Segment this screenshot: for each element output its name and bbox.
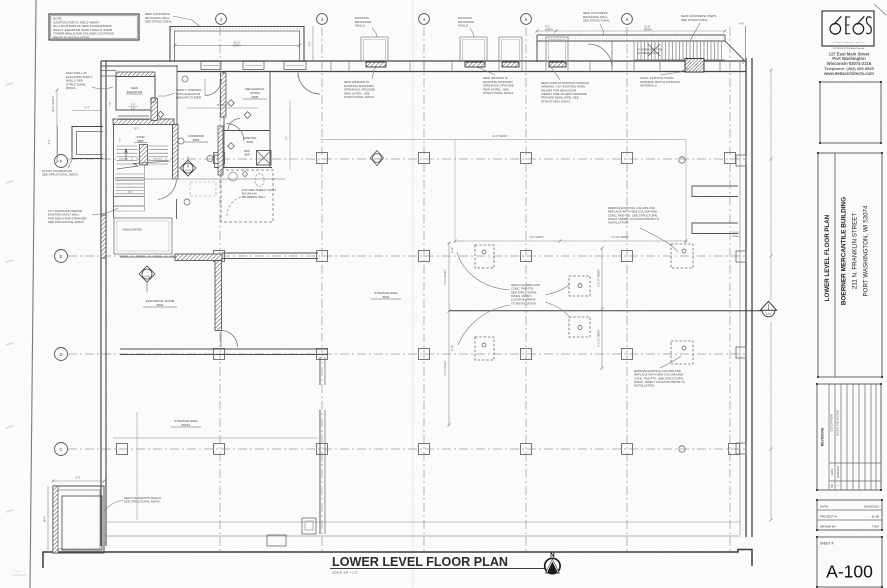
svg-text:TO INSTALLATION: TO INSTALLATION [511,301,536,305]
svg-text:SEE STRUCTURAL DWGS.: SEE STRUCTURAL DWGS. [42,173,79,177]
east wall [745,58,747,537]
svg-text:5'-4": 5'-4" [85,107,90,110]
south foundation line [43,550,752,569]
vertical dim right of footings [601,248,603,368]
keynote diamond elevator south [157,111,164,118]
svg-text:4'-0": 4'-0" [131,109,136,111]
window openings in north wall left [201,62,221,70]
left margin marks [6,83,13,85]
svg-text:E: E [60,254,63,259]
svg-text:9'-0": 9'-0" [75,476,80,480]
corridor south wall [113,178,285,180]
svg-text:www.6e6sarchitects.com: www.6e6sarchitects.com [823,71,874,76]
mech door arc [228,119,240,131]
retaining wall interior dim [175,44,300,46]
svg-text:#001: #001 [383,295,390,299]
sw stoop foundation [53,486,104,553]
svg-text:4'-0": 4'-0" [128,191,133,194]
window sills on north wall [366,62,386,67]
horizontal grid lines F E D C [68,158,748,160]
svg-text:A-300: A-300 [144,275,149,278]
stoop dims [72,110,103,112]
svg-text:ELEVATOR: ELEVATOR [127,90,143,94]
dim line top footing row [320,139,686,141]
janitor bottom wall [215,167,273,169]
stair left wall [113,125,115,219]
svg-text:4'-1": 4'-1" [545,25,550,29]
logo glyph 6 left [830,24,841,35]
south area floor line [106,521,741,523]
general note box [49,14,139,40]
svg-text:COPYRIGHT 2012: COPYRIGHT 2012 All Rights Reserved [833,47,864,50]
svg-text:02/06/2012: 02/06/2012 [837,465,840,478]
logo glyph 6 right [853,24,864,35]
svg-text:PORT WASHINGTON, WI 53074: PORT WASHINGTON, WI 53074 [863,205,870,296]
svg-text:LOWER LEVEL FLOOR PLAN: LOWER LEVEL FLOOR PLAN [332,554,508,569]
stair top hatched wall [113,119,174,125]
corridor east hatched wall [218,126,223,175]
svg-text:PLUMBING ONLY: PLUMBING ONLY [242,195,266,199]
stair center wall [140,145,148,166]
grid bubbles top [216,14,227,25]
electrical room north wall [120,256,175,258]
svg-text:7'-7": 7'-7" [287,136,289,141]
svg-text:16'-4": 16'-4" [43,516,47,523]
svg-text:SEE STRUCTURAL: SEE STRUCTURAL [583,19,610,23]
storage 001a inner line [113,437,318,439]
stair break line [117,161,170,169]
stair down arrow [125,149,128,160]
keynote circle janitor west [207,156,213,162]
vertical dim at grid between footings [448,243,450,425]
steps right return [725,35,746,62]
leaders to footings [457,252,510,290]
dimension line above retaining wall [537,30,725,32]
svg-text:STRUCTURAL DWGS.: STRUCTURAL DWGS. [483,91,514,95]
small circle on grid C [679,446,685,452]
svg-text:8'-1": 8'-1" [135,128,140,131]
toilet fixture dashed [255,174,264,187]
small diamond toilet room [242,171,247,177]
corridor north door arc [205,79,222,96]
svg-text:REVISIONS: REVISIONS [821,427,825,446]
footing anchor circles [482,250,486,254]
section marker corridor [180,160,196,176]
east wall pilasters [736,155,746,166]
grid bubbles left [55,155,68,168]
svg-text:WALLS: WALLS [458,24,468,28]
svg-text:#005: #005 [137,139,144,143]
sw stoop hatch edge [53,486,58,553]
janitor sw wall jog [215,155,222,168]
stair right hatched wall [173,125,179,180]
svg-text:(7) RISERS AT 7" EQ.: (7) RISERS AT 7" EQ. [637,48,664,52]
keynote circle corridor wall [178,138,184,144]
svg-text:SEE STRUCTURAL: SEE STRUCTURAL [681,18,708,22]
south wall inner face [106,535,740,537]
svg-text:DESCRIPTION: DESCRIPTION [831,414,834,431]
svg-text:SEE STRUCTURAL DWGS.: SEE STRUCTURAL DWGS. [48,220,85,224]
second dashed fixture box [190,182,216,196]
svg-text:SHEET #:: SHEET #: [820,542,834,546]
svg-text:31'-6" VERIFY: 31'-6" VERIFY [492,135,508,138]
new concrete retaining wall top-right [537,34,725,36]
svg-text:A-300: A-300 [185,169,190,172]
revisions box [817,384,881,490]
sheet number box [817,537,882,587]
north wall inner face right [177,71,746,73]
svg-text:#001A: #001A [182,423,191,427]
keynote circle elevator wall [151,98,156,103]
steps cross mark [648,44,660,56]
electrical room south wall double [120,348,328,350]
svg-text:2'-6": 2'-6" [131,105,136,107]
svg-text:#004: #004 [247,140,254,144]
svg-text:6'-6 1/2" VERIFY: 6'-6 1/2" VERIFY [599,269,601,287]
north wall mullion ticks [330,61,332,72]
future unisex toilet dashed room [221,170,273,222]
svg-text:(6) TREADS AT 11": (6) TREADS AT 11" [637,51,660,55]
svg-text:A-100: A-100 [826,562,873,582]
svg-text:PROJECT #:: PROJECT #: [820,514,837,518]
title underline [330,568,545,570]
svg-text:9'-6" VERIFY: 9'-6" VERIFY [530,236,544,239]
svg-text:#003: #003 [193,138,200,142]
svg-text:14'-2" VERIFY: 14'-2" VERIFY [444,360,447,376]
janitor door arc [227,124,245,142]
elevator room [116,77,155,111]
elevator door lines [118,115,149,117]
left vertical dim line [56,90,58,162]
vertical grid lines 2-7 [219,27,221,552]
beam marks on east wall [692,186,738,197]
elevator north hatched wall [116,72,155,77]
svg-text:WALLS: WALLS [355,24,365,28]
svg-text:3'-6": 3'-6" [120,138,122,143]
electrical room east wall [215,261,222,331]
sink fixture dashed [229,172,238,181]
svg-text:5'-8 1/2" VERIFY: 5'-8 1/2" VERIFY [599,329,601,347]
svg-text:DATE:: DATE: [820,504,829,508]
svg-text:7'-8": 7'-8" [110,102,112,107]
new door arc at existing window opening [588,44,612,68]
svg-text:3'-4": 3'-4" [48,139,51,144]
stair landing lines [114,196,145,198]
west wall [100,61,102,546]
section marker electrical [139,266,155,282]
logo glyph S [866,17,871,34]
svg-text:ISSUED FOR BIDDING: ISSUED FOR BIDDING [837,410,840,436]
empty stamp box [820,82,881,143]
column squares [317,153,328,164]
unexcavated area [114,218,172,254]
stair lower run treads [116,173,145,175]
svg-text:MATERIALS: MATERIALS [640,84,657,88]
svg-text:SCALE: 1/8" = 1'-0": SCALE: 1/8" = 1'-0" [332,571,358,575]
svg-text:N: N [550,552,555,559]
new footing dotted squares [475,245,494,268]
svg-text:SEE STRUCTURAL: SEE STRUCTURAL [145,20,172,24]
info box [817,500,882,530]
elevator right wall hatch [151,98,158,121]
north wall inner face left [101,65,177,67]
svg-text:VERIFY: VERIFY [545,30,554,32]
small pit boxes near south wall [267,535,286,546]
horizontal dim above footings [455,240,686,242]
svg-text:02/06/2012: 02/06/2012 [864,504,879,508]
stair upper run treads right [149,145,169,147]
svg-text:TGW: TGW [872,524,879,528]
svg-text:DWGS.: DWGS. [66,86,76,90]
svg-text:211 N. FRANKLIN STREET: 211 N. FRANKLIN STREET [852,213,859,289]
svg-text:MANUFACTURER: MANUFACTURER [176,96,202,100]
cmu infill west wall segment [101,215,106,258]
storage door arc in south wall [221,331,238,348]
wall at grid 3 lower [319,357,321,385]
svg-text:2'-8": 2'-8" [741,59,745,64]
new concrete steps treads [633,42,635,60]
new concrete retaining wall top-left [170,27,304,63]
svg-text:LOWER LEVEL FLOOR PLAN: LOWER LEVEL FLOOR PLAN [824,214,831,301]
section cut line [449,310,762,312]
keynote diamond near grid 4 [371,151,384,166]
project title box [818,153,882,377]
svg-text:SINK: SINK [244,154,250,157]
keynote circle corridor south [184,199,190,205]
svg-text:#002: #002 [157,303,164,307]
svg-text:7'-6 1/2" VERIFY: 7'-6 1/2" VERIFY [611,236,629,239]
svg-text:BOERNER MERCANTILE BUILDING: BOERNER MERCANTILE BUILDING [841,197,848,305]
svg-text:C: C [59,447,62,452]
svg-text:36'-4" VERIFY: 36'-4" VERIFY [52,96,55,112]
stair upper run treads left [117,145,138,147]
svg-text:4'-0": 4'-0" [739,22,744,26]
svg-text:STRUCTURAL DWGS.: STRUCTURAL DWGS. [541,99,571,103]
svg-text:~––: ~–– [13,568,21,573]
wall below corridor door [176,199,178,219]
svg-text:22'-6": 22'-6" [644,25,651,29]
wall row E storage 001 [222,252,318,254]
svg-text:NO.: NO. [832,483,834,487]
svg-text:A-300: A-300 [766,313,771,316]
fold crease [412,0,414,588]
elevator shelf lines [100,70,116,72]
sw stoop dims [53,480,104,482]
right side vertical dim line [770,70,772,300]
stoop at stair west [72,127,103,159]
section marker right [762,304,775,317]
top right corner mark [874,4,886,15]
infill existing door hatched box [685,59,704,73]
dim line east of mech [289,100,291,170]
sheet left border line [30,0,36,588]
svg-text:DRAWN BY:: DRAWN BY: [820,524,837,528]
dashed door arc in toilet room [227,196,247,216]
keynote diamonds janitor area [228,143,235,150]
existing retaining wall window wells [361,37,388,62]
svg-text:18'-4 1/2": 18'-4 1/2" [217,104,228,107]
north wall door arc east of mech [298,72,320,94]
svg-text:11-08: 11-08 [872,514,880,518]
logo glyph E [845,16,847,34]
svg-text:DATE: DATE [830,468,834,475]
svg-text:INSTALLATION.: INSTALLATION. [634,384,655,388]
dim extension near mech [289,108,291,140]
wall at x 177 [176,65,178,126]
svg-text:F: F [60,159,63,164]
svg-text:INSTALLATION.: INSTALLATION. [608,221,629,225]
small circle on grid F [679,157,685,163]
svg-text:SEE STRUCTURAL DWGS.: SEE STRUCTURAL DWGS. [124,500,161,504]
svg-text:3'-6": 3'-6" [309,41,312,46]
retaining wall right dim [312,26,314,62]
svg-text:VERIFY: VERIFY [644,30,653,32]
keynote circle on wall [182,76,188,82]
svg-text:PRIOR TO INSTALLATION.: PRIOR TO INSTALLATION. [53,35,90,39]
svg-text:STRUCTURAL DWGS.: STRUCTURAL DWGS. [344,95,375,99]
svg-text:3'-10": 3'-10" [451,247,454,253]
corridor door arc below stair [158,180,177,200]
svg-text:D: D [59,352,62,357]
mechanical room walls [223,72,225,168]
north arrow [545,558,560,573]
north wall outer face [101,60,746,62]
svg-text:#006: #006 [252,95,259,99]
logo box [822,11,874,46]
svg-text:VERIFY: VERIFY [233,45,242,48]
svg-text:UNEXCAVATED: UNEXCAVATED [122,228,142,232]
svg-text:VERIFY: VERIFY [732,236,740,238]
svg-text:3'-10": 3'-10" [451,345,454,351]
svg-text:14'-2" VERIFY: 14'-2" VERIFY [444,269,447,285]
